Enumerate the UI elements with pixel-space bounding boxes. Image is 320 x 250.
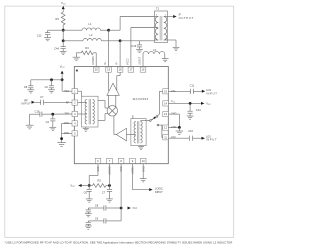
pin 10 (GND) bottom — [140, 158, 146, 171]
LOGIC INPUT port — [149, 186, 163, 194]
svg-text:LOOUT: LOOUT — [139, 56, 142, 65]
wire pin 5 ground leg — [62, 132, 72, 134]
svg-text:C12: C12 — [37, 33, 42, 37]
pin 6 (VCC) bottom — [95, 158, 101, 171]
capacitor C3 (LO shunt upper) — [86, 208, 91, 214]
wire L2 to node D — [101, 40, 120, 42]
svg-text:MAX9993: MAX9993 — [133, 97, 149, 101]
ground (TAP leg) — [26, 125, 34, 129]
capacitor C10 — [188, 129, 193, 141]
svg-text:C7: C7 — [40, 95, 44, 99]
capacitor C15 — [35, 110, 42, 117]
wire C8b to node M — [106, 207, 121, 209]
inductor L2 — [63, 33, 101, 41]
svg-text:GND: GND — [142, 166, 145, 172]
svg-text:LO1: LO1 — [206, 88, 211, 92]
svg-text:C13: C13 — [196, 108, 201, 112]
pin 17 (VCC2) top — [127, 58, 134, 72]
ground (RF balun) — [83, 127, 89, 131]
svg-text:5: 5 — [165, 14, 166, 16]
pin 16 (LOOUT) top — [139, 56, 146, 72]
svg-text:LOSEL: LOSEL — [132, 166, 135, 174]
wire C7 to pin 2 — [44, 101, 73, 103]
wire pin 2 into balun — [78, 102, 82, 104]
ground (C13) — [187, 116, 194, 119]
pin 18 (IF–) top — [116, 61, 123, 72]
wire mixer to IF amp (right) — [115, 95, 117, 107]
inductor L1 — [63, 22, 100, 30]
svg-text:C8: C8 — [24, 85, 28, 89]
node C (junction L1/IF+ feed) — [107, 29, 110, 32]
pin 11 (LO2) right — [163, 135, 176, 140]
pin 20 (RFBIAS) top — [92, 56, 99, 72]
op-amp U1b (IF amplifier) — [107, 83, 119, 95]
svg-text:INPUT: INPUT — [21, 102, 31, 106]
wire VCC to pin 1 — [62, 80, 72, 91]
power VCC (top supply arrow) — [61, 1, 66, 12]
wire LO line lower — [88, 220, 104, 222]
wire balun to mixer (lower) — [98, 114, 108, 121]
svg-text:LOGIC: LOGIC — [155, 186, 163, 190]
svg-text:R2: R2 — [98, 179, 102, 183]
svg-text:C16: C16 — [131, 44, 136, 48]
transformer T1 — [155, 7, 168, 43]
LO port (bottom) — [128, 207, 138, 211]
svg-text:IF+: IF+ — [104, 61, 107, 65]
capacitor C13 — [188, 103, 202, 116]
svg-text:VCC: VCC — [171, 100, 176, 103]
ground (pins 4-5) — [57, 143, 66, 147]
svg-text:LOBIAS: LOBIAS — [109, 166, 112, 175]
ground (C16) — [136, 49, 143, 52]
ground (C7b) — [106, 199, 113, 202]
wire pin 4 ground leg — [62, 123, 72, 142]
ground (L3) — [162, 59, 169, 62]
ground (C2) — [48, 90, 55, 93]
capacitor C6 — [84, 186, 92, 199]
ground (C8) — [27, 90, 34, 93]
ground (C4) — [49, 127, 56, 130]
wire pin 12 ground leg — [168, 126, 179, 128]
svg-text:R4: R4 — [85, 46, 89, 50]
wire pin 10 to ground — [142, 164, 144, 179]
wire node L to pin 7 — [109, 164, 111, 186]
wire LO line upper — [88, 207, 104, 209]
svg-text:IF: IF — [179, 13, 182, 17]
power VCC (right) — [201, 102, 211, 106]
svg-text:INPUT: INPUT — [155, 190, 163, 194]
wire pin 3 into balun — [78, 113, 82, 115]
wire LO buffer to mixer — [114, 116, 116, 135]
IF OUTPUT port — [168, 13, 194, 21]
mixer U1a (X in circle) — [107, 106, 117, 116]
op-amp U1c (LO buffer) — [116, 128, 126, 141]
RF balun (internal transformer) — [82, 96, 99, 127]
power VCC (bottom supply arrow) — [70, 184, 89, 188]
LO2 INPUT port — [193, 134, 217, 141]
wire C15 to pin 3 — [42, 113, 72, 115]
svg-text:RFBIAS: RFBIAS — [92, 56, 95, 65]
wire L1 to node C — [100, 29, 108, 31]
node H (GND junction) — [60, 137, 63, 140]
wire node D down to pin 18 (IF-) — [119, 41, 121, 67]
ground (R4) — [73, 57, 80, 61]
svg-text:C8: C8 — [95, 203, 99, 207]
svg-text:3: 3 — [156, 14, 157, 16]
pin 15 (LO1) right — [163, 89, 176, 94]
wire R4 to ground — [75, 53, 77, 57]
svg-text:VCC2: VCC2 — [127, 58, 130, 65]
capacitor C7b — [102, 186, 112, 199]
RF INPUT port — [21, 98, 40, 105]
pin 8 (VCC) bottom — [118, 158, 124, 171]
node D (junction L2/IF- feed) — [119, 39, 122, 42]
pin 1 (VCC) left — [64, 89, 78, 94]
node M (LO junction) — [120, 207, 123, 210]
node J (right GND junction) — [178, 126, 181, 129]
wire LO balun stub — [132, 115, 134, 118]
node G (C4 tap) — [51, 113, 54, 116]
wire LO buffer input — [126, 134, 130, 136]
svg-text:VCC: VCC — [97, 166, 100, 171]
wire switch to pin 11 — [159, 125, 163, 137]
power VCC (left supply arrow) — [60, 64, 65, 79]
node E (VCC bypass rail) — [61, 78, 64, 81]
wire node A down to node B — [62, 30, 64, 41]
wire node C down to pin 19 (IF+) — [108, 30, 110, 67]
svg-text:C44: C44 — [54, 47, 59, 51]
pin 19 (IF+) top — [104, 61, 111, 72]
svg-text:C15: C15 — [35, 110, 40, 114]
ground (C44) — [60, 51, 67, 54]
svg-text:INPUT: INPUT — [206, 138, 217, 142]
pin 2 (RF) left — [66, 100, 78, 105]
pin 5 (GND) left — [64, 131, 78, 136]
ground (pins 12-13) — [176, 127, 183, 134]
wire T1 secondary to ground — [168, 40, 177, 47]
wire node M to pin 8 — [120, 164, 122, 208]
ground (C3) — [85, 214, 92, 217]
capacitor C2 — [45, 80, 55, 90]
svg-text:C7: C7 — [102, 190, 106, 194]
svg-text:C9: C9 — [95, 216, 99, 220]
ground (C6) — [86, 199, 93, 202]
svg-text:C6: C6 — [84, 190, 88, 194]
wire IF amp to pin 18 — [117, 72, 120, 90]
wire pin 11 to C10 — [168, 137, 189, 139]
resistor R3 — [55, 12, 65, 25]
wire pin 13 ground leg — [168, 114, 179, 127]
svg-text:4: 4 — [165, 39, 166, 41]
capacitor C9 (series lower) — [95, 216, 106, 223]
wire balun to mixer (upper) — [98, 101, 108, 108]
wire T1 center tap to pin 17 — [131, 28, 155, 68]
svg-text:C11: C11 — [190, 83, 195, 87]
resistor R2 — [89, 179, 109, 188]
resistor R4 — [76, 46, 96, 67]
wire pin 14 VCC feed — [168, 102, 201, 104]
inductor L3 — [143, 48, 165, 67]
node F (C2 tap) — [50, 78, 53, 81]
svg-text:OUTPUT: OUTPUT — [179, 16, 194, 20]
pin 14 (V<tspan font-size="1.9" dy="0.3">CC</tspan>) right — [163, 100, 176, 106]
pin 7 (LOBIAS) bottom — [107, 158, 113, 175]
capacitor C44 — [54, 41, 66, 52]
svg-text:RF: RF — [24, 98, 28, 102]
ground (C5) — [85, 226, 92, 229]
svg-text:C4: C4 — [46, 120, 50, 124]
wire pin 1 to balun — [78, 91, 82, 96]
ground (C12) — [44, 38, 51, 41]
wire TAP shunt leg — [30, 114, 40, 125]
wire switch to pin 15 — [158, 91, 163, 116]
capacitor C12 — [37, 30, 63, 37]
svg-text:2: 2 — [156, 39, 157, 41]
wire R3 bottom to node A — [62, 25, 64, 30]
pin 9 (LOSEL) bottom — [130, 158, 136, 174]
capacitor C4 — [46, 114, 56, 127]
wire pin 6 to node K — [89, 164, 98, 186]
svg-text:INPUT: INPUT — [206, 92, 217, 96]
capacitor C7 — [40, 95, 44, 105]
ground (T1 secondary) — [173, 47, 180, 50]
node I (VCC bypass) — [189, 102, 192, 105]
switch SW1 (LO select) — [146, 116, 159, 127]
op-amp U1 MAX9993 (IC body) — [74, 67, 168, 164]
svg-text:C2: C2 — [45, 85, 49, 89]
wire node D to T1 primary bottom — [120, 40, 154, 42]
wire pin 15 to C11 — [168, 90, 190, 92]
capacitor C16 — [131, 41, 142, 50]
capacitor C8b (series upper) — [95, 203, 106, 210]
LO balun (internal transformer) — [131, 119, 146, 146]
node B (junction L2/C44) — [62, 39, 65, 42]
pin 3 (TAP) left — [65, 111, 78, 116]
capacitor C11 — [190, 83, 195, 94]
pin 12 (GND) right — [163, 125, 177, 130]
wire IF amp to pin 19 — [108, 72, 110, 91]
wire pin 9 LOSEL — [133, 164, 150, 190]
node A (junction R3/L1/C12) — [62, 29, 65, 32]
wire node C to T1 primary top — [109, 17, 155, 31]
capacitor C5 (LO shunt lower) — [86, 221, 91, 226]
svg-text:PLO: PLO — [133, 208, 138, 210]
pin 4 (GND) left — [64, 121, 78, 126]
ground (LO balun) — [138, 146, 144, 150]
wire VCC rail — [31, 79, 62, 81]
node L (VCC filter right) — [108, 184, 111, 187]
ground (pin 10) — [140, 179, 147, 182]
LO1 INPUT port — [193, 88, 217, 96]
capacitor C8 — [24, 80, 34, 90]
wire C9 to node M — [106, 208, 121, 221]
wire mixer to IF amp (left) — [108, 95, 110, 107]
node K (VCC filter left) — [88, 184, 91, 187]
svg-text:R3: R3 — [55, 17, 59, 21]
svg-text:VCC: VCC — [120, 166, 123, 171]
svg-text:*USE L2 FOR IMPROVED RF-TO-IF: *USE L2 FOR IMPROVED RF-TO-IF AND LO-TO-… — [5, 241, 234, 245]
svg-text:C10: C10 — [188, 129, 193, 133]
pin 13 (GND) right — [163, 112, 177, 117]
caption text — [5, 241, 234, 245]
